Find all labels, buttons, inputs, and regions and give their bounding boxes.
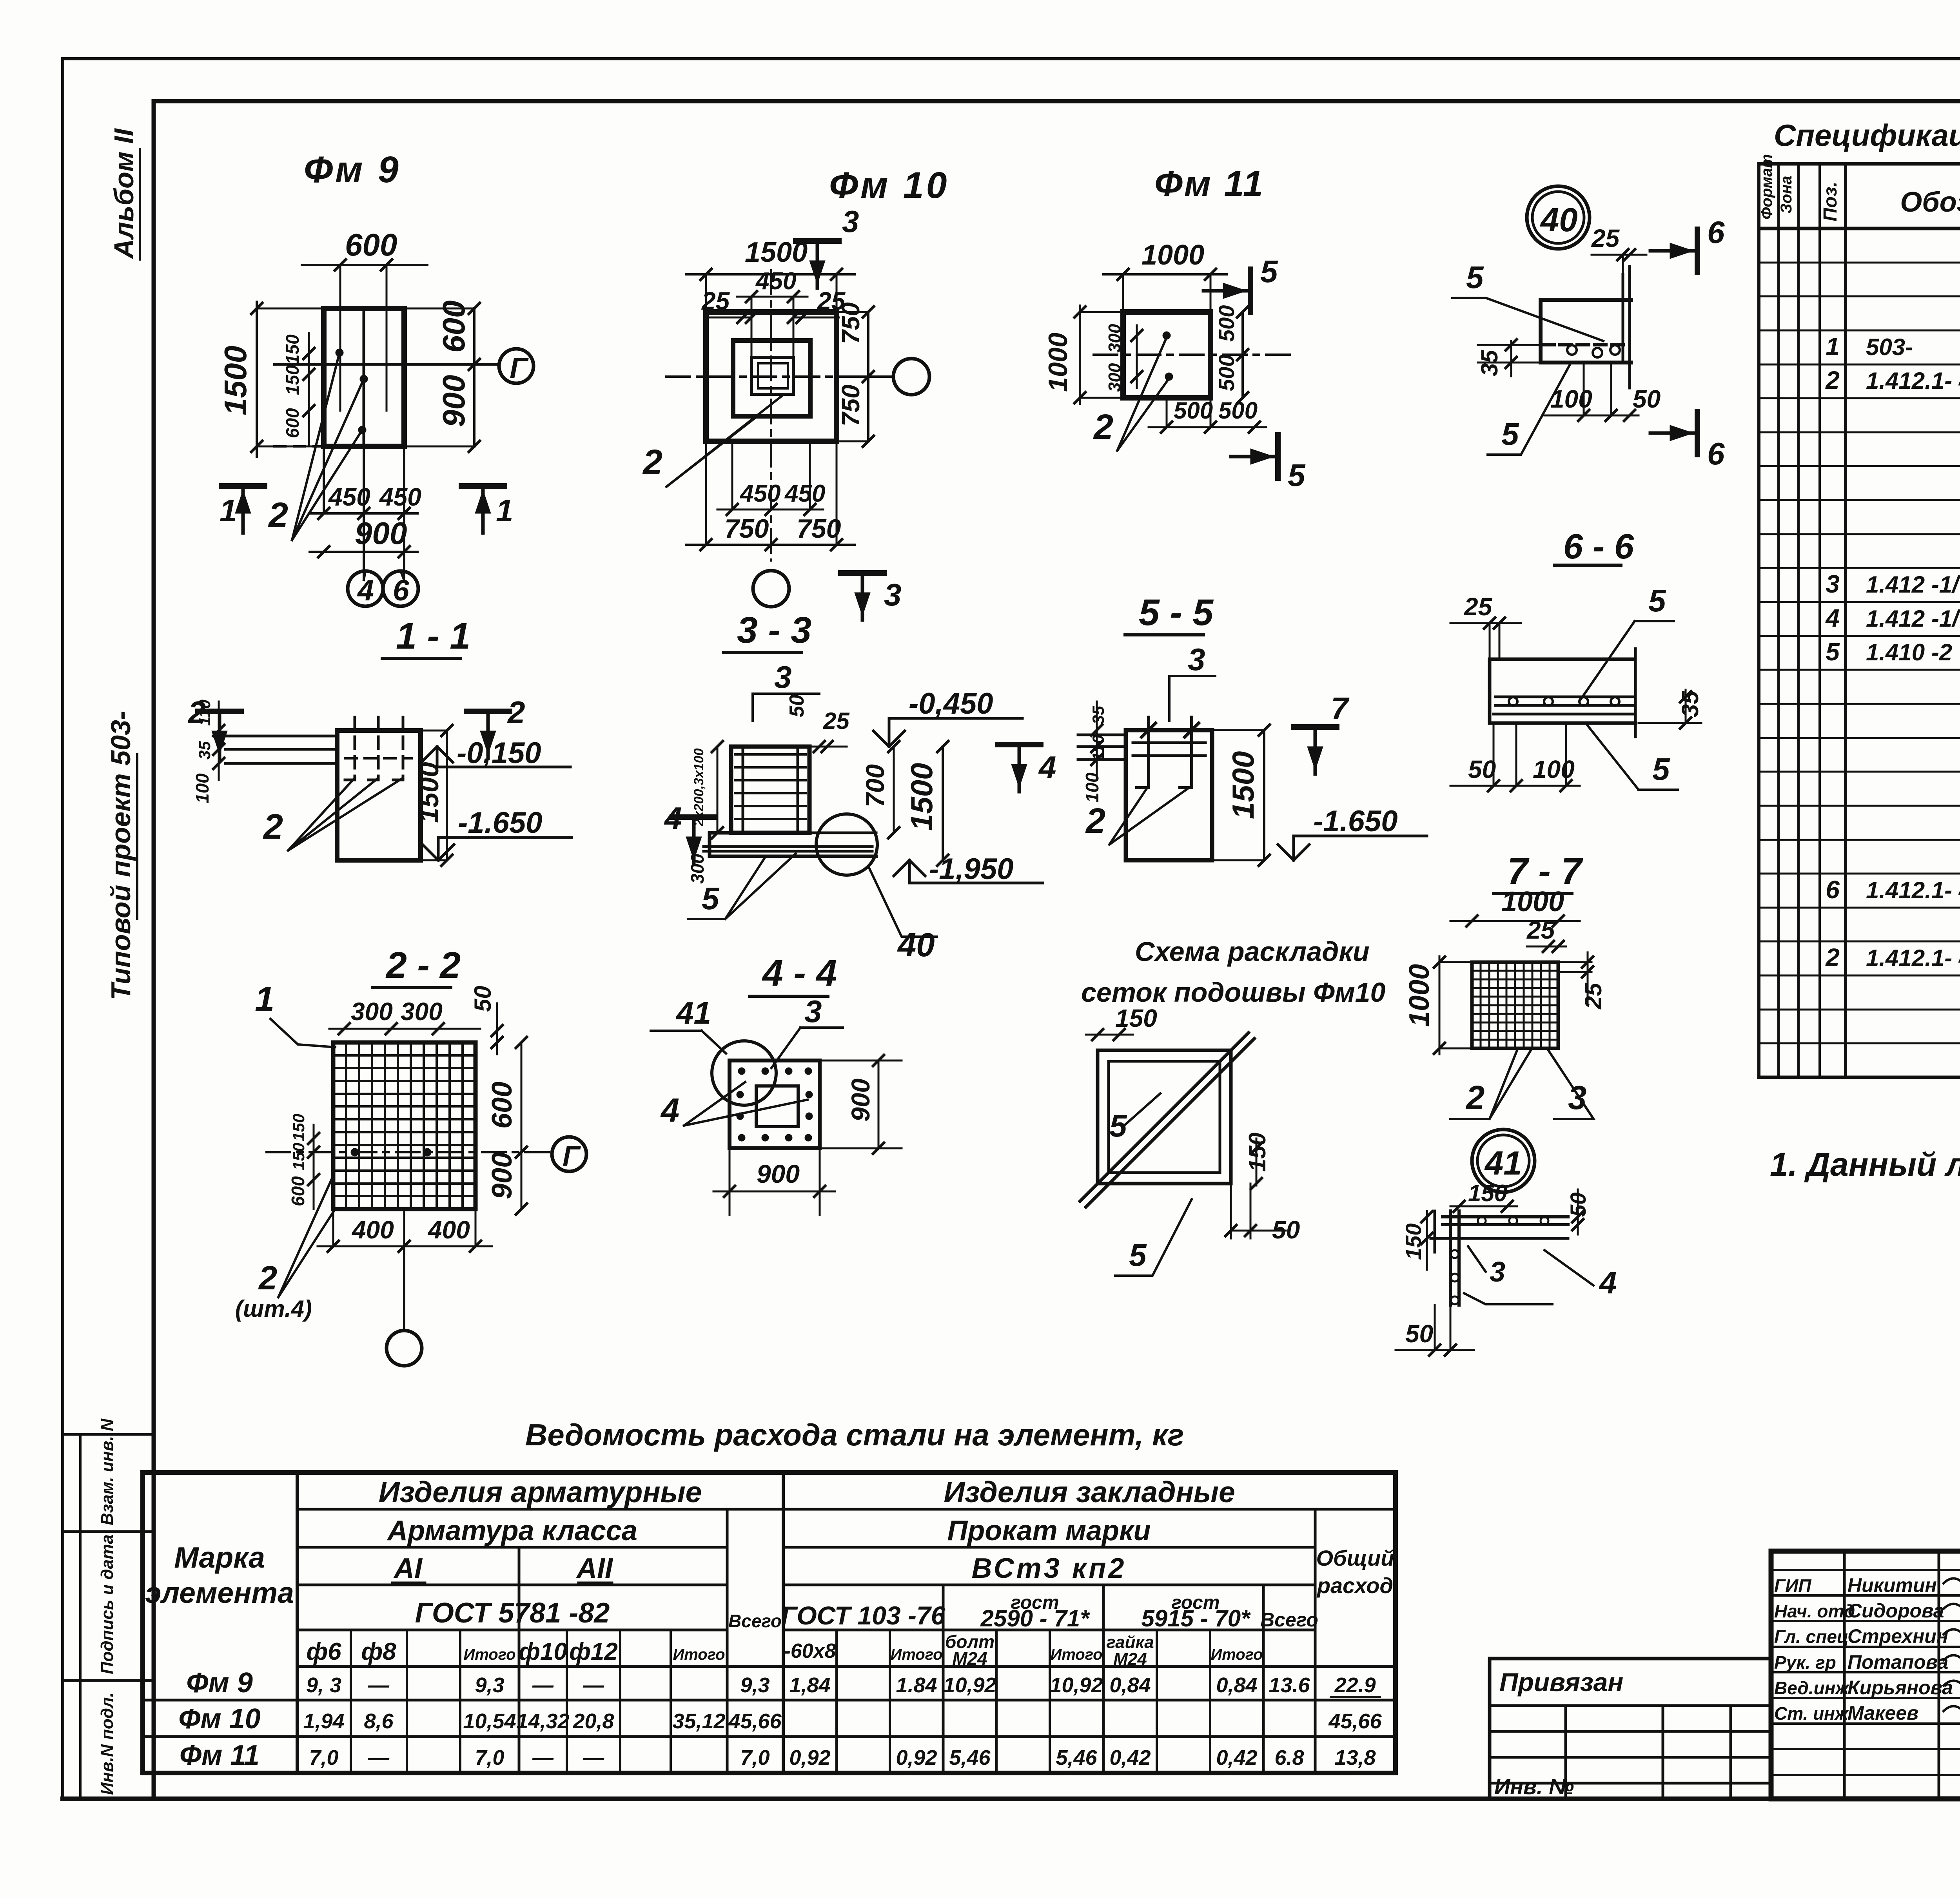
svg-text:600: 600 — [486, 1082, 518, 1129]
svg-text:Нач. отд: Нач. отд — [1774, 1601, 1855, 1621]
scheme diagonal — [1080, 1033, 1249, 1201]
svg-text:500: 500 — [1214, 355, 1239, 391]
svg-text:900: 900 — [757, 1159, 800, 1188]
anchor dots (ФМ11) — [1163, 332, 1171, 339]
section mark 5 bottom — [1275, 435, 1281, 478]
3-3 level -1.950 — [894, 860, 925, 876]
svg-text:5,46: 5,46 — [1056, 1746, 1097, 1769]
5-5 level -1.650 — [1278, 845, 1309, 860]
svg-text:Инв.N подл.: Инв.N подл. — [98, 1692, 117, 1795]
svg-text:Ведомость расхода стали н: Ведомость расхода стали на элемент, кг — [525, 1418, 1184, 1452]
svg-text:300: 300 — [687, 854, 708, 884]
dim 1500 top — [686, 273, 855, 276]
7-7 dim 25 right — [1587, 952, 1589, 1003]
2-2 axis dashdot — [267, 1151, 549, 1153]
ФМ9 internal column lines — [363, 308, 365, 446]
svg-text:Марка: Марка — [174, 1541, 265, 1574]
svg-text:ВСт3 кп2: ВСт3 кп2 — [972, 1553, 1127, 1584]
svg-text:2: 2 — [1825, 943, 1840, 972]
detail 40 mesh line — [1543, 343, 1627, 346]
svg-text:2: 2 — [642, 443, 662, 482]
svg-text:1000: 1000 — [1501, 886, 1564, 917]
svg-text:Итого: Итого — [1210, 1646, 1263, 1663]
svg-text:500: 500 — [1214, 305, 1239, 342]
4-4 detail circle (41) — [712, 1041, 776, 1105]
svg-text:6: 6 — [393, 574, 410, 607]
svg-text:ф6: ф6 — [306, 1638, 341, 1665]
section mark 3 bottom — [841, 570, 884, 576]
svg-text:4: 4 — [1599, 1265, 1617, 1300]
scheme square double border — [1098, 1050, 1231, 1184]
svg-text:110: 110 — [195, 700, 214, 726]
svg-text:1: 1 — [220, 493, 237, 528]
svg-text:503-: 503- — [1866, 334, 1913, 360]
svg-text:ф12: ф12 — [569, 1638, 618, 1665]
привязан sub-table — [1488, 1659, 1492, 1799]
2-2 dims 300 300 top — [329, 1028, 480, 1030]
5-5 anchor bolts — [1147, 717, 1150, 788]
dim 450 450 bottom — [310, 512, 417, 515]
svg-text:Г: Г — [563, 1141, 581, 1172]
5-5 callout 3 — [1169, 676, 1215, 721]
svg-text:1500: 1500 — [745, 237, 808, 268]
svg-text:2: 2 — [1465, 1079, 1485, 1117]
svg-text:Кирьянова: Кирьянова — [1847, 1677, 1953, 1699]
signature table grid — [1843, 1551, 1846, 1799]
svg-text:5: 5 — [1652, 752, 1670, 787]
svg-text:5 - 5: 5 - 5 — [1139, 592, 1214, 633]
section 1-1 body — [337, 731, 421, 860]
2-2 dim 600/900 right — [521, 1042, 523, 1209]
svg-text:Всего: Всего — [728, 1611, 782, 1631]
3-3 level -0.450 — [873, 731, 905, 747]
svg-text:7,0: 7,0 — [475, 1746, 504, 1769]
svg-text:Итого: Итого — [463, 1646, 515, 1663]
svg-text:1000: 1000 — [1404, 964, 1435, 1027]
svg-text:(шт.4): (шт.4) — [235, 1296, 312, 1322]
svg-text:3: 3 — [774, 660, 792, 694]
dim 450 450 bottom (ФМ10) — [717, 509, 823, 511]
svg-text:5: 5 — [1826, 638, 1840, 666]
section mark 3 top — [796, 238, 839, 244]
svg-text:3: 3 — [1826, 570, 1840, 598]
axis bubble right (ФМ10) — [893, 359, 929, 395]
svg-text:9,3: 9,3 — [740, 1673, 769, 1697]
svg-text:150: 150 — [289, 1143, 308, 1170]
svg-text:45,66: 45,66 — [1328, 1709, 1382, 1733]
svg-text:Г: Г — [510, 352, 529, 384]
svg-text:300: 300 — [351, 997, 393, 1026]
svg-text:150: 150 — [282, 365, 303, 395]
svg-text:-1.650: -1.650 — [458, 806, 543, 839]
svg-text:Схема раскладки: Схема раскладки — [1135, 936, 1370, 967]
svg-text:300: 300 — [1105, 324, 1124, 353]
svg-text:ГОСТ 103 -76: ГОСТ 103 -76 — [781, 1601, 946, 1630]
3-3 pedestal — [731, 747, 809, 833]
dim 600 top — [302, 264, 427, 266]
svg-text:-1,950: -1,950 — [929, 852, 1014, 886]
dim 1000 top (ФМ11) — [1103, 273, 1227, 276]
svg-text:5: 5 — [1288, 458, 1306, 493]
svg-text:-0,450: -0,450 — [909, 687, 993, 720]
axis line Г — [274, 363, 498, 366]
svg-text:Итого: Итого — [890, 1646, 942, 1663]
svg-text:10,54: 10,54 — [463, 1709, 516, 1733]
svg-text:1.410 -2: 1.410 -2 — [1866, 639, 1952, 665]
specification table grid — [1757, 164, 1760, 1077]
1-1 dim 1500 right — [446, 731, 448, 860]
svg-text:3: 3 — [842, 204, 859, 239]
svg-text:600: 600 — [288, 1176, 308, 1206]
ФМ9 foundation outline — [324, 308, 404, 446]
3-3 callout 3 top — [753, 694, 819, 721]
svg-text:Фм 9: Фм 9 — [186, 1667, 253, 1699]
svg-text:Фм 10: Фм 10 — [178, 1703, 261, 1735]
svg-text:41: 41 — [1484, 1145, 1522, 1182]
svg-text:0,84: 0,84 — [1109, 1673, 1151, 1697]
1-1 level -1.650 — [423, 845, 454, 860]
svg-text:7,0: 7,0 — [309, 1746, 338, 1769]
svg-text:Фм 11: Фм 11 — [1154, 164, 1265, 204]
svg-text:9, 3: 9, 3 — [306, 1673, 341, 1697]
svg-text:Рук. гр: Рук. гр — [1774, 1652, 1836, 1673]
dim 450 top — [737, 296, 808, 298]
svg-text:25: 25 — [1580, 983, 1606, 1010]
5-5 section mark 7 top — [1294, 724, 1337, 730]
section mark 5 top right — [1248, 269, 1253, 312]
svg-text:4: 4 — [357, 574, 374, 607]
svg-text:АI: АI — [393, 1553, 423, 1584]
dim chain 300 300 left (ФМ11) — [1136, 325, 1138, 388]
svg-text:40: 40 — [1540, 201, 1578, 239]
svg-text:750: 750 — [837, 302, 865, 344]
svg-text:4: 4 — [1038, 750, 1056, 785]
2-2 bottom axis bubble — [387, 1331, 422, 1366]
svg-text:элемента: элемента — [145, 1576, 294, 1609]
steel table verticals — [296, 1472, 299, 1773]
svg-text:35,12: 35,12 — [672, 1709, 725, 1733]
svg-text:50: 50 — [1633, 385, 1661, 413]
svg-text:2: 2 — [507, 695, 525, 730]
svg-text:Взам. инв. N: Взам. инв. N — [98, 1418, 117, 1525]
svg-text:Сидорова: Сидорова — [1847, 1600, 1944, 1622]
svg-text:6.8: 6.8 — [1274, 1746, 1304, 1769]
svg-text:3: 3 — [1490, 1256, 1505, 1288]
svg-text:—: — — [368, 1746, 390, 1769]
svg-text:5: 5 — [1648, 583, 1666, 618]
section mark 1 right — [461, 483, 505, 489]
dashed edge extension ФМ9 — [274, 445, 324, 448]
svg-text:1.412 -1/77: 1.412 -1/77 — [1866, 605, 1960, 632]
axis bubble bottom (ФМ10) — [753, 571, 789, 607]
svg-text:900: 900 — [846, 1079, 875, 1122]
floor lines left of 1-1 — [225, 735, 337, 738]
svg-text:1,84: 1,84 — [789, 1673, 830, 1697]
svg-text:150: 150 — [1468, 1180, 1507, 1206]
left margin stamp strip — [79, 1434, 82, 1799]
svg-text:7,0: 7,0 — [740, 1746, 769, 1769]
svg-text:750: 750 — [724, 514, 769, 544]
svg-text:Никитин: Никитин — [1847, 1574, 1937, 1596]
svg-text:1: 1 — [255, 980, 274, 1019]
svg-text:0,84: 0,84 — [1216, 1673, 1257, 1697]
3-3 top dims — [809, 746, 847, 748]
ФМ10 column rect — [751, 357, 793, 394]
ФМ11 outline — [1123, 312, 1210, 398]
svg-text:Подпись и дата: Подпись и дата — [98, 1534, 117, 1674]
svg-text:1,94: 1,94 — [303, 1709, 344, 1733]
svg-text:Изделия закладные: Изделия закладные — [944, 1476, 1235, 1508]
svg-text:1500: 1500 — [904, 763, 939, 831]
svg-text:22.9: 22.9 — [1334, 1673, 1376, 1697]
svg-text:9,3: 9,3 — [475, 1673, 504, 1697]
svg-text:-60х8: -60х8 — [784, 1640, 836, 1662]
svg-text:0,42: 0,42 — [1216, 1746, 1257, 1769]
svg-text:500: 500 — [1218, 397, 1258, 424]
svg-text:Привязан: Привязан — [1499, 1668, 1623, 1697]
svg-text:Инв. №: Инв. № — [1494, 1774, 1574, 1799]
svg-text:900: 900 — [486, 1152, 518, 1199]
detail 41 bubble — [1472, 1129, 1535, 1192]
1-1 level -0.150 — [421, 747, 453, 762]
svg-text:35: 35 — [1677, 691, 1703, 717]
svg-text:25: 25 — [701, 287, 730, 315]
svg-text:ф8: ф8 — [361, 1638, 396, 1665]
svg-text:М24: М24 — [952, 1648, 987, 1669]
svg-text:5,46: 5,46 — [949, 1746, 991, 1769]
svg-text:Фм 10: Фм 10 — [829, 165, 949, 206]
svg-text:45,66: 45,66 — [728, 1709, 782, 1733]
svg-text:0,92: 0,92 — [896, 1746, 937, 1769]
svg-text:расход: расход — [1316, 1573, 1393, 1598]
svg-text:1000: 1000 — [1142, 239, 1204, 271]
svg-text:2 - 2: 2 - 2 — [385, 944, 461, 986]
svg-text:10,92: 10,92 — [1050, 1673, 1103, 1697]
svg-text:-1.650: -1.650 — [1313, 805, 1398, 838]
svg-text:50: 50 — [786, 694, 808, 717]
svg-text:2: 2 — [1085, 801, 1105, 841]
svg-text:900: 900 — [436, 375, 471, 427]
5-5 dim 1500 right — [1263, 730, 1265, 860]
svg-text:0,92: 0,92 — [789, 1746, 830, 1769]
svg-text:Спецификация фундаментов Фм: Спецификация фундаментов Фм9... Фм11 — [1774, 118, 1960, 152]
svg-text:5: 5 — [702, 881, 720, 916]
svg-text:2: 2 — [1093, 408, 1113, 447]
svg-text:Зона: Зона — [1778, 176, 1795, 214]
svg-text:1: 1 — [1826, 332, 1840, 361]
svg-text:35: 35 — [195, 741, 214, 760]
svg-text:5: 5 — [1466, 260, 1484, 295]
6-6 mesh lines — [1495, 696, 1633, 698]
svg-text:6 - 6: 6 - 6 — [1563, 527, 1634, 566]
1-1 anchor bolts dashed — [354, 717, 356, 780]
svg-text:М24: М24 — [1113, 1650, 1147, 1669]
svg-text:3: 3 — [804, 994, 822, 1029]
svg-text:5: 5 — [1129, 1238, 1147, 1273]
svg-text:3 - 3: 3 - 3 — [737, 609, 811, 651]
svg-text:1. Данный лист см. с листа: 1. Данный лист см. с листами — [1770, 1146, 1960, 1183]
svg-text:150: 150 — [289, 1114, 308, 1141]
svg-text:Альбом II: Альбом II — [109, 128, 139, 259]
svg-text:600: 600 — [345, 227, 397, 262]
3-3 footing — [710, 831, 809, 835]
3-3 detail circle 40 — [816, 814, 877, 875]
svg-text:—: — — [532, 1746, 554, 1769]
detail 40 dim 35 — [1510, 341, 1512, 376]
svg-text:АII: АII — [576, 1553, 613, 1584]
svg-text:Итого: Итого — [673, 1646, 725, 1663]
3-3 pedestal mesh rungs — [735, 753, 806, 756]
svg-text:50: 50 — [1468, 755, 1496, 783]
svg-text:1000: 1000 — [1043, 333, 1073, 392]
dim 1500 left — [256, 302, 258, 457]
3-3 right dims 700/1500 — [893, 747, 895, 833]
svg-text:450: 450 — [739, 480, 780, 507]
svg-text:3: 3 — [1188, 642, 1205, 677]
svg-text:4 - 4: 4 - 4 — [762, 952, 837, 994]
6-6 slab — [1490, 658, 1633, 661]
dim 750 750 bottom (ФМ10) — [686, 544, 855, 546]
svg-text:400: 400 — [427, 1216, 470, 1244]
svg-text:300: 300 — [401, 997, 443, 1026]
svg-text:—: — — [368, 1673, 390, 1697]
svg-text:1.412.1- 4. 060: 1.412.1- 4. 060 — [1866, 945, 1960, 971]
svg-text:1500: 1500 — [1226, 751, 1260, 819]
1-1 top marks — [198, 709, 241, 714]
svg-text:Изделия арматурные: Изделия арматурные — [379, 1476, 702, 1508]
svg-text:2: 2 — [1825, 366, 1840, 394]
svg-text:25: 25 — [1591, 224, 1620, 252]
svg-text:750: 750 — [797, 514, 841, 544]
svg-text:8,6: 8,6 — [364, 1709, 394, 1733]
svg-text:Итого: Итого — [1050, 1646, 1102, 1663]
4-4 outer square — [730, 1060, 820, 1148]
ФМ10 middle square — [733, 341, 810, 416]
svg-text:Обозначение: Обозначение — [1900, 187, 1960, 218]
svg-text:13,8: 13,8 — [1334, 1746, 1376, 1769]
7-7 dim 1000 top — [1450, 920, 1580, 922]
svg-text:—: — — [583, 1673, 604, 1697]
svg-text:ф10: ф10 — [519, 1638, 567, 1665]
svg-text:0,42: 0,42 — [1109, 1746, 1151, 1769]
svg-text:450: 450 — [328, 483, 370, 511]
svg-text:25: 25 — [1464, 593, 1493, 621]
6-6 bottom dims 50 100 — [1450, 785, 1580, 787]
3-3 section mark 4 top/left — [998, 742, 1041, 747]
svg-text:—: — — [532, 1673, 554, 1697]
svg-text:Потапова: Потапова — [1847, 1651, 1948, 1673]
section mark 1 left — [221, 483, 265, 489]
section mark 6 bottom — [1695, 412, 1700, 455]
svg-text:100: 100 — [192, 773, 212, 803]
section mark 6 top — [1695, 229, 1700, 272]
svg-text:41: 41 — [675, 995, 711, 1030]
svg-text:5: 5 — [1260, 254, 1278, 289]
svg-text:Арматура класса: Арматура класса — [387, 1515, 637, 1546]
4-4 dim 900 right — [878, 1060, 880, 1148]
detail 40 dims 100 50 — [1544, 415, 1639, 417]
svg-text:900: 900 — [355, 516, 407, 551]
sheet inner frame — [152, 101, 156, 1799]
svg-text:-0,150: -0,150 — [457, 736, 541, 770]
svg-text:50: 50 — [470, 986, 496, 1012]
7-7 mesh — [1472, 962, 1558, 1048]
svg-text:ГОСТ 5781 -82: ГОСТ 5781 -82 — [415, 1597, 610, 1629]
svg-text:50: 50 — [1405, 1320, 1433, 1348]
svg-text:40: 40 — [897, 926, 935, 964]
svg-text:1.412.1- 4. 050: 1.412.1- 4. 050 — [1866, 877, 1960, 903]
svg-text:600: 600 — [282, 408, 303, 438]
dim chain 150 150 600 left — [308, 333, 310, 446]
svg-text:6: 6 — [1707, 436, 1725, 471]
svg-text:25: 25 — [823, 708, 850, 734]
svg-text:400: 400 — [351, 1216, 394, 1244]
svg-text:1.412 -1/77: 1.412 -1/77 — [1866, 571, 1960, 598]
svg-text:2: 2 — [268, 496, 288, 535]
title block main outline — [1771, 1551, 1960, 1799]
svg-text:1500: 1500 — [218, 346, 253, 415]
svg-text:4: 4 — [1825, 604, 1840, 632]
svg-text:100: 100 — [1533, 755, 1575, 783]
svg-text:6: 6 — [1826, 876, 1840, 904]
svg-text:500: 500 — [1174, 397, 1213, 424]
svg-text:1: 1 — [496, 493, 514, 528]
svg-text:Вед.инж: Вед.инж — [1774, 1678, 1849, 1698]
svg-text:6: 6 — [1707, 215, 1725, 250]
svg-text:700: 700 — [860, 764, 889, 807]
svg-text:1.84: 1.84 — [896, 1673, 937, 1697]
svg-text:Поз.: Поз. — [1820, 181, 1841, 221]
svg-text:1500: 1500 — [414, 762, 444, 823]
ФМ11 axes — [1094, 353, 1294, 356]
svg-text:1 - 1: 1 - 1 — [396, 615, 470, 657]
svg-text:Ст. инж: Ст. инж — [1774, 1703, 1849, 1724]
svg-text:Фм 9: Фм 9 — [304, 149, 401, 190]
5-5 body — [1126, 730, 1212, 860]
svg-text:5915 - 70*: 5915 - 70* — [1142, 1605, 1251, 1632]
6-6 right break line — [1634, 649, 1637, 737]
detail 41 corner mesh — [1443, 1215, 1568, 1218]
svg-text:ГИП: ГИП — [1774, 1575, 1811, 1596]
axis bubble Г — [499, 349, 534, 383]
svg-text:Типовой проект 503-: Типовой проект 503- — [105, 711, 136, 1000]
svg-text:150: 150 — [1115, 1004, 1157, 1032]
svg-text:450: 450 — [784, 480, 825, 507]
dim 900 bottom — [310, 551, 417, 553]
dim 750 750 right — [867, 312, 869, 441]
svg-text:2: 2 — [263, 807, 283, 847]
svg-text:450: 450 — [755, 268, 796, 295]
svg-text:5: 5 — [1501, 417, 1519, 451]
6-6 dim 35 right — [1685, 690, 1687, 723]
svg-text:20,8: 20,8 — [572, 1709, 614, 1733]
svg-text:750: 750 — [837, 384, 865, 426]
dim 600/900 right — [473, 308, 475, 446]
7-7 dim 1000 left — [1439, 956, 1441, 1054]
svg-text:Всего: Всего — [1260, 1609, 1318, 1631]
svg-text:35: 35 — [1089, 706, 1107, 724]
svg-text:2: 2 — [258, 1260, 277, 1297]
svg-text:Стрехнин: Стрехнин — [1847, 1625, 1948, 1647]
2-2 left dim chain — [313, 1125, 315, 1209]
svg-text:Формат: Формат — [1758, 154, 1775, 219]
4-4 rebar dots — [738, 1068, 745, 1075]
svg-text:4: 4 — [664, 801, 682, 836]
svg-text:гайка: гайка — [1106, 1633, 1154, 1652]
steel table outer — [143, 1472, 1396, 1773]
svg-text:Фм 11: Фм 11 — [180, 1740, 260, 1771]
4-4 dim 900 bottom — [713, 1191, 835, 1193]
